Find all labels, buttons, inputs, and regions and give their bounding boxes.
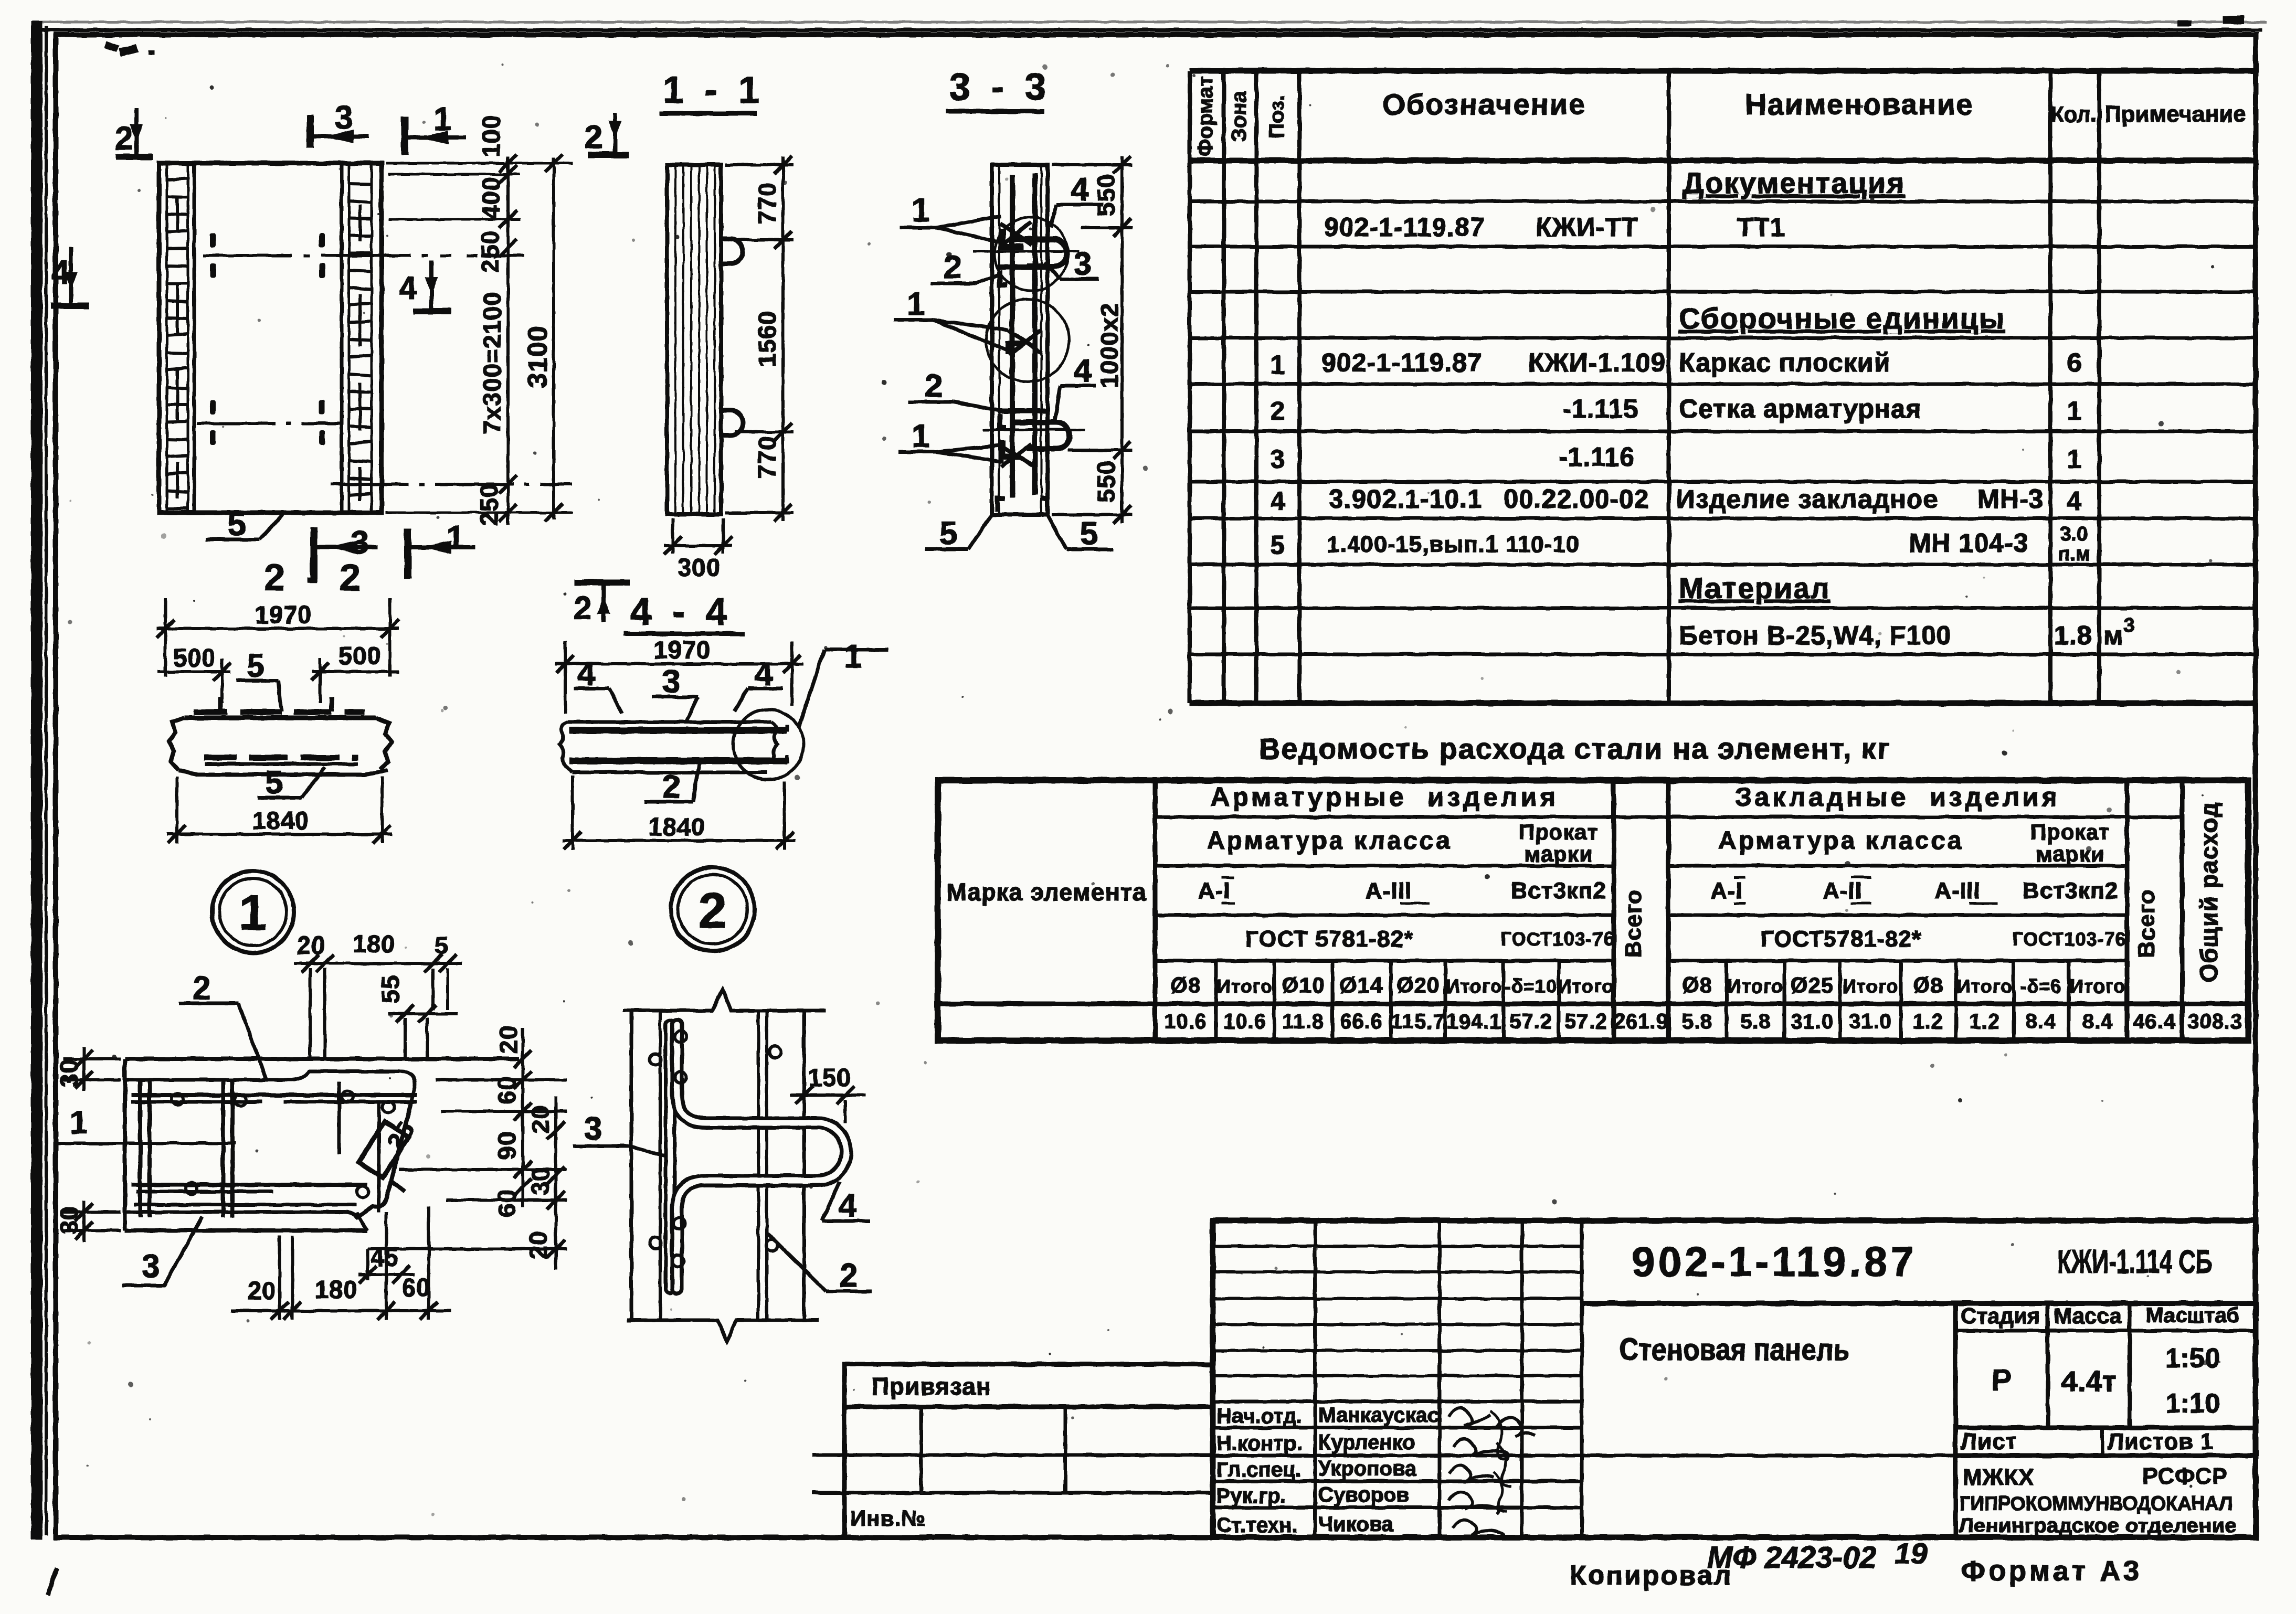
svg-text:А-I: А-I xyxy=(1198,878,1231,904)
svg-text:Арматура класса: Арматура класса xyxy=(1718,827,1964,855)
svg-text:ГОСТ5781-82*: ГОСТ5781-82* xyxy=(1761,926,1922,952)
section 4-4 detail circle xyxy=(733,709,803,780)
svg-text:Зона: Зона xyxy=(1228,91,1251,142)
svg-text:10.6: 10.6 xyxy=(1223,1010,1266,1033)
svg-text:902-1-119.87: 902-1-119.87 xyxy=(1321,348,1483,377)
svg-text:Обозначение: Обозначение xyxy=(1382,88,1586,121)
svg-text:Ø25: Ø25 xyxy=(1791,973,1834,997)
section 4-4 panel body xyxy=(560,722,787,772)
svg-text:Курленко: Курленко xyxy=(1318,1431,1415,1454)
svg-text:902-1-119.87: 902-1-119.87 xyxy=(1324,213,1485,242)
section 1-1 marker 2 bottom xyxy=(575,582,630,622)
svg-text:4: 4 xyxy=(51,254,70,291)
svg-text:7х300=2100: 7х300=2100 xyxy=(478,291,506,434)
svg-text:ГОСТ 5781-82*: ГОСТ 5781-82* xyxy=(1245,926,1413,952)
svg-text:1: 1 xyxy=(2067,396,2082,426)
svg-text:Масса: Масса xyxy=(2054,1303,2122,1328)
svg-text:1:50: 1:50 xyxy=(2165,1343,2220,1374)
specification table header texts xyxy=(1194,76,2246,156)
title block grid xyxy=(1213,1220,2256,1537)
svg-text:5: 5 xyxy=(1271,530,1286,560)
detail circle marker 1 xyxy=(212,871,294,953)
steel table header texts xyxy=(946,782,2223,982)
svg-text:Привязан: Привязан xyxy=(872,1373,991,1400)
svg-text:2: 2 xyxy=(840,1258,858,1294)
svg-text:2 - 2: 2 - 2 xyxy=(264,557,366,599)
detail 1 right dim chain B xyxy=(367,1097,567,1270)
svg-text:66.6: 66.6 xyxy=(1340,1010,1383,1033)
svg-text:Формат: Формат xyxy=(1194,76,1217,156)
svg-text:2: 2 xyxy=(699,883,726,939)
svg-text:3: 3 xyxy=(1074,246,1092,282)
svg-text:902-1-119.87: 902-1-119.87 xyxy=(1632,1238,1917,1285)
svg-text:20: 20 xyxy=(297,931,325,959)
svg-text:Вст3кп2: Вст3кп2 xyxy=(1511,878,1606,904)
section 3-3 lower rebar detail xyxy=(983,411,1085,466)
detail 2 panel edges xyxy=(623,990,826,1341)
section 2-2 panel body xyxy=(169,697,392,774)
svg-text:90: 90 xyxy=(493,1131,521,1160)
plan view centerlines xyxy=(197,256,572,484)
svg-text:Ø8: Ø8 xyxy=(1913,973,1943,997)
svg-text:300: 300 xyxy=(678,554,720,581)
svg-text:5: 5 xyxy=(247,648,264,684)
section marker 3 top xyxy=(310,115,368,148)
svg-text:Ленинградское отделение: Ленинградское отделение xyxy=(1959,1515,2237,1536)
specification table grid xyxy=(1190,71,2256,703)
svg-text:Гл.спец.: Гл.спец. xyxy=(1216,1458,1302,1481)
svg-text:5: 5 xyxy=(228,506,246,543)
section 3-3 vertical rebars xyxy=(1012,173,1035,497)
svg-text:Материал: Материал xyxy=(1679,571,1830,604)
svg-text:ТТ1: ТТ1 xyxy=(1737,213,1785,242)
svg-text:Итого: Итого xyxy=(2070,975,2126,997)
svg-text:2: 2 xyxy=(925,368,943,404)
detail 1 label 2 xyxy=(179,1003,266,1079)
detail 2 label 3 xyxy=(573,1146,664,1156)
svg-text:Кол.: Кол. xyxy=(2050,102,2097,126)
svg-text:2: 2 xyxy=(193,970,210,1006)
detail 1 diagonal anchor plate xyxy=(358,1121,409,1191)
svg-text:Ø14: Ø14 xyxy=(1340,973,1383,997)
svg-text:20: 20 xyxy=(248,1277,276,1304)
svg-text:30: 30 xyxy=(55,1206,83,1234)
svg-text:1 - 1: 1 - 1 xyxy=(663,69,765,111)
svg-text:1.400-15,вып.1 110-10: 1.400-15,вып.1 110-10 xyxy=(1327,532,1580,557)
svg-text:1: 1 xyxy=(239,885,267,941)
svg-text:1560: 1560 xyxy=(753,310,781,367)
svg-text:770: 770 xyxy=(753,436,781,479)
svg-text:250: 250 xyxy=(476,230,504,273)
svg-text:250: 250 xyxy=(475,483,503,526)
svg-text:Манкаускас: Манкаускас xyxy=(1318,1404,1440,1427)
detail 1 rebar cage xyxy=(131,1080,417,1217)
svg-text:-1.116: -1.116 xyxy=(1559,442,1635,472)
section 1-1 dims 770/1560/770 xyxy=(725,156,793,522)
svg-text:Рук.гр.: Рук.гр. xyxy=(1216,1484,1286,1507)
svg-text:261.9: 261.9 xyxy=(1613,1010,1668,1033)
svg-text:3 - 3: 3 - 3 xyxy=(949,66,1051,108)
section 3-3 dims 550/1000x2/550 xyxy=(1052,156,1133,524)
svg-text:4: 4 xyxy=(839,1187,857,1224)
svg-text:6: 6 xyxy=(2067,348,2082,377)
section 4-4 dim 1840 xyxy=(563,776,796,850)
detail 2 cross-bar circles xyxy=(650,1031,781,1267)
plan bottom label 5 xyxy=(206,513,283,539)
svg-text:А-III: А-III xyxy=(1934,878,1981,904)
svg-text:5: 5 xyxy=(265,764,283,801)
svg-text:Инв.№: Инв.№ xyxy=(850,1506,926,1531)
svg-text:Марка элемента: Марка элемента xyxy=(946,878,1146,906)
svg-text:марки: марки xyxy=(2036,842,2104,866)
section 1-1 hooks xyxy=(721,239,743,436)
detail 1 label 1 leader xyxy=(56,1142,236,1145)
svg-text:Закладные изделия: Закладные изделия xyxy=(1735,782,2060,812)
svg-text:Ø8: Ø8 xyxy=(1170,973,1201,997)
svg-text:1: 1 xyxy=(907,286,925,322)
svg-text:Итого: Итого xyxy=(1728,975,1784,997)
svg-text:4: 4 xyxy=(1071,172,1089,208)
svg-text:п.м: п.м xyxy=(2058,543,2090,565)
svg-text:30: 30 xyxy=(55,1059,83,1087)
svg-text:20: 20 xyxy=(524,1231,552,1259)
svg-text:60: 60 xyxy=(493,1076,521,1105)
svg-text:5: 5 xyxy=(939,516,957,552)
svg-text:4: 4 xyxy=(1271,486,1286,516)
svg-text:4: 4 xyxy=(1074,353,1092,389)
plan view ladder rungs right xyxy=(349,184,372,495)
svg-text:Стадия: Стадия xyxy=(1961,1303,2040,1328)
svg-text:1840: 1840 xyxy=(649,813,706,841)
section 2-2 label 5 bottom xyxy=(257,767,325,798)
steel table phi row xyxy=(1170,973,2125,997)
svg-text:м: м xyxy=(2103,621,2123,650)
svg-text:Итого: Итого xyxy=(1217,975,1273,997)
svg-text:А-III: А-III xyxy=(1366,878,1412,904)
svg-text:Итого: Итого xyxy=(1957,975,2013,997)
svg-text:Поз.: Поз. xyxy=(1265,94,1288,139)
detail 1 rebar section circles xyxy=(172,1091,394,1197)
svg-text:Листов 1: Листов 1 xyxy=(2108,1429,2214,1454)
section marker 4 left xyxy=(50,247,89,306)
section 3-3 labels left xyxy=(894,216,1012,462)
svg-text:марки: марки xyxy=(1524,842,1593,866)
svg-text:1: 1 xyxy=(446,519,464,556)
svg-text:ГОСТ103-76: ГОСТ103-76 xyxy=(1500,928,1614,950)
svg-text:-δ=10: -δ=10 xyxy=(1505,975,1557,997)
steel table data row xyxy=(1164,1010,2242,1033)
svg-text:45: 45 xyxy=(371,1243,399,1271)
plan dim extension lines xyxy=(386,163,573,513)
svg-text:Ст.техн.: Ст.техн. xyxy=(1216,1514,1298,1537)
svg-text:Сборочные единицы: Сборочные единицы xyxy=(1679,302,2005,335)
svg-text:60: 60 xyxy=(493,1189,521,1217)
section 3-3 middle rebar detail xyxy=(986,299,1069,382)
svg-text:1000х2: 1000х2 xyxy=(1095,303,1123,388)
svg-text:1: 1 xyxy=(1271,350,1286,379)
svg-text:Арматурные изделия: Арматурные изделия xyxy=(1211,782,1559,812)
section 2-2 dim 1970 xyxy=(156,598,399,677)
section 4-4 labels 4 3 4 1 xyxy=(574,650,888,727)
svg-text:3: 3 xyxy=(584,1111,602,1147)
svg-text:4: 4 xyxy=(755,656,773,692)
svg-text:Стеновая панель: Стеновая панель xyxy=(1619,1333,1850,1367)
svg-text:500: 500 xyxy=(173,644,216,672)
detail 2 U-bar 4 xyxy=(677,1025,847,1289)
svg-text:Итого: Итого xyxy=(1843,975,1899,997)
svg-text:4: 4 xyxy=(2067,486,2082,516)
svg-text:500: 500 xyxy=(338,642,381,670)
detail 2 mesh bar 3 xyxy=(664,1025,676,1289)
svg-text:Суворов: Суворов xyxy=(1318,1483,1409,1506)
svg-text:Масштаб: Масштаб xyxy=(2146,1304,2239,1327)
section marker 4 right xyxy=(414,261,451,311)
section 1-1 bar xyxy=(667,165,721,514)
svg-text:194.1: 194.1 xyxy=(1446,1010,1501,1033)
svg-text:30: 30 xyxy=(526,1167,554,1195)
section 2-2 dim 1840 xyxy=(167,777,393,844)
svg-text:Чикова: Чикова xyxy=(1318,1513,1394,1536)
svg-text:1970: 1970 xyxy=(255,601,312,629)
svg-text:Примечание: Примечание xyxy=(2104,101,2246,127)
svg-text:Бетон В-25,W4, F100: Бетон В-25,W4, F100 xyxy=(1679,621,1952,650)
svg-text:1.8: 1.8 xyxy=(2054,621,2092,650)
svg-text:1: 1 xyxy=(70,1105,88,1141)
svg-text:4.4т: 4.4т xyxy=(2061,1365,2116,1398)
svg-text:Ø10: Ø10 xyxy=(1282,973,1325,997)
steel table grid xyxy=(938,780,2248,1040)
svg-text:8.4: 8.4 xyxy=(2026,1010,2057,1033)
svg-text:Сетка арматурная: Сетка арматурная xyxy=(1679,394,1922,423)
svg-text:Вст3кп2: Вст3кп2 xyxy=(2023,878,2118,904)
svg-text:180: 180 xyxy=(315,1276,357,1303)
svg-text:8.4: 8.4 xyxy=(2082,1010,2113,1033)
section marker 2 top-left xyxy=(116,108,153,157)
svg-text:Лист: Лист xyxy=(1961,1429,2017,1454)
svg-text:Н.контр.: Н.контр. xyxy=(1216,1432,1302,1455)
svg-text:Общий расход: Общий расход xyxy=(2195,802,2223,982)
detail 1 bottom dims 20/180/60 xyxy=(231,1207,451,1320)
svg-text:5.8: 5.8 xyxy=(1682,1010,1713,1033)
svg-text:3: 3 xyxy=(351,525,368,561)
svg-text:МН 104-3: МН 104-3 xyxy=(1909,528,2029,558)
section marker 3 bottom xyxy=(314,527,378,579)
section 3-3 top rebar detail xyxy=(973,217,1080,291)
svg-text:-1.115: -1.115 xyxy=(1562,394,1638,423)
detail circle marker 2 xyxy=(671,867,755,951)
svg-text:Ø8: Ø8 xyxy=(1682,973,1712,997)
plan overall dim 3100 xyxy=(545,154,563,522)
svg-text:2: 2 xyxy=(1271,396,1286,426)
svg-text:-δ=6: -δ=6 xyxy=(2020,975,2062,997)
signatures squiggles xyxy=(1448,1408,1535,1538)
svg-text:А-II: А-II xyxy=(1823,878,1863,904)
plan view vertical stubs in rungs xyxy=(177,197,360,501)
section 4-4 label 2 xyxy=(644,764,699,802)
svg-text:19: 19 xyxy=(1895,1537,1927,1570)
svg-text:5: 5 xyxy=(1080,516,1098,552)
svg-text:3.0: 3.0 xyxy=(2060,523,2088,545)
svg-text:Нач.отд.: Нач.отд. xyxy=(1216,1405,1302,1428)
plan dim texts xyxy=(475,115,506,526)
svg-text:770: 770 xyxy=(753,182,781,225)
section 2-2 dims 500 xyxy=(157,659,399,703)
section 2-2 label 5 top xyxy=(236,681,281,712)
svg-text:10.6: 10.6 xyxy=(1164,1010,1207,1033)
svg-text:1: 1 xyxy=(2067,444,2082,474)
svg-text:20: 20 xyxy=(494,1025,522,1054)
svg-text:5: 5 xyxy=(435,931,449,959)
svg-text:55: 55 xyxy=(376,975,404,1003)
specification table rows xyxy=(1271,166,2135,650)
svg-text:А-I: А-I xyxy=(1710,878,1743,904)
svg-text:3: 3 xyxy=(2123,614,2134,636)
svg-text:2: 2 xyxy=(662,769,680,805)
detail 2 label 4 xyxy=(822,1182,870,1221)
svg-text:2: 2 xyxy=(115,121,133,157)
section marker 1 bottom xyxy=(408,529,475,579)
svg-text:Итого: Итого xyxy=(1446,975,1503,997)
svg-text:Прокат: Прокат xyxy=(1519,820,1599,844)
detail 2 dim 150 xyxy=(790,1086,866,1123)
section 3-3 labels 5 xyxy=(925,515,1113,549)
svg-text:Формат А3: Формат А3 xyxy=(1961,1555,2142,1587)
svg-text:100: 100 xyxy=(477,115,505,157)
svg-text:00.22.00-02: 00.22.00-02 xyxy=(1504,484,1649,514)
svg-text:Наименование: Наименование xyxy=(1745,88,1974,121)
svg-text:2: 2 xyxy=(585,119,602,155)
detail 2 label 2 xyxy=(767,1233,872,1291)
svg-text:КЖИ-1.114 СБ: КЖИ-1.114 СБ xyxy=(2057,1244,2212,1280)
roman numeral bars xyxy=(1222,877,1997,904)
svg-text:3: 3 xyxy=(142,1248,160,1284)
svg-text:115.7: 115.7 xyxy=(1391,1010,1445,1033)
detail 1 dims 30 left xyxy=(63,1047,121,1243)
svg-text:1.2: 1.2 xyxy=(1970,1010,2001,1033)
privjazan box xyxy=(812,1364,1213,1537)
svg-text:31.0: 31.0 xyxy=(1849,1010,1892,1033)
svg-text:Р: Р xyxy=(1992,1363,2012,1397)
svg-text:Ведомость расхода стали на эле: Ведомость расхода стали на элемент, кг xyxy=(1259,732,1890,765)
svg-text:2: 2 xyxy=(574,590,591,627)
svg-text:550: 550 xyxy=(1092,460,1120,503)
svg-text:ГОСТ103-76: ГОСТ103-76 xyxy=(2012,928,2126,950)
svg-text:КЖИ-ТТ: КЖИ-ТТ xyxy=(1536,213,1638,242)
plan dim chain 100/400/250/2100/250 xyxy=(499,154,517,525)
svg-text:1970: 1970 xyxy=(654,636,711,664)
svg-text:5.8: 5.8 xyxy=(1740,1010,1771,1033)
detail 1 label 3 xyxy=(122,1217,202,1286)
svg-text:ГИПРОКОММУНВОДОКАНАЛ: ГИПРОКОММУНВОДОКАНАЛ xyxy=(1960,1493,2232,1515)
svg-text:МФ 2423-02: МФ 2423-02 xyxy=(1707,1541,1877,1575)
svg-text:180: 180 xyxy=(353,930,395,958)
svg-text:Прокат: Прокат xyxy=(2030,820,2110,844)
svg-text:Изделие закладное: Изделие закладное xyxy=(1676,484,1938,514)
section 3-3 panel outline xyxy=(992,165,1048,515)
svg-text:46.4: 46.4 xyxy=(2133,1010,2176,1033)
detail 1 dim 45 xyxy=(358,1249,415,1283)
svg-text:1: 1 xyxy=(912,192,929,228)
svg-text:4 - 4: 4 - 4 xyxy=(630,591,732,633)
svg-text:57.2: 57.2 xyxy=(1509,1010,1552,1033)
svg-text:Документация: Документация xyxy=(1683,166,1905,199)
detail 1 concrete outline xyxy=(125,1059,520,1230)
svg-text:3: 3 xyxy=(662,664,680,700)
bottom annotations xyxy=(1570,1537,2142,1591)
svg-text:Арматура класса: Арматура класса xyxy=(1207,827,1452,855)
svg-text:3.902.1-10.1: 3.902.1-10.1 xyxy=(1329,484,1483,514)
svg-text:РСФСР: РСФСР xyxy=(2142,1463,2228,1489)
svg-text:МН-3: МН-3 xyxy=(1977,484,2044,514)
svg-text:МЖКХ: МЖКХ xyxy=(1963,1464,2035,1490)
plan view ladder rungs left xyxy=(167,178,188,508)
plan view panel outline xyxy=(159,163,382,513)
svg-text:Всего: Всего xyxy=(1621,889,1646,958)
svg-text:Итого: Итого xyxy=(1558,975,1614,997)
section 1-1 dim 300 xyxy=(664,518,732,555)
svg-text:3: 3 xyxy=(335,100,353,136)
svg-text:308.3: 308.3 xyxy=(2187,1010,2242,1033)
svg-text:1:10: 1:10 xyxy=(2165,1388,2220,1419)
svg-text:1840: 1840 xyxy=(252,806,310,834)
svg-text:1: 1 xyxy=(912,418,929,454)
plan view rebar dashes xyxy=(210,233,325,445)
section 1-1 marker 2 top xyxy=(588,113,629,155)
svg-text:4: 4 xyxy=(399,270,417,306)
svg-text:1.2: 1.2 xyxy=(1913,1010,1944,1033)
detail 1 dim 55 xyxy=(388,1005,458,1058)
svg-text:150: 150 xyxy=(808,1064,851,1091)
svg-text:550: 550 xyxy=(1092,174,1120,216)
signature rows texts xyxy=(1216,1404,1440,1537)
svg-text:1: 1 xyxy=(844,639,862,675)
svg-text:11.8: 11.8 xyxy=(1282,1010,1324,1033)
title block texts xyxy=(1619,1238,2239,1536)
svg-text:3100: 3100 xyxy=(523,325,553,388)
detail 1 top dims 20/180/5 xyxy=(294,954,462,1058)
svg-text:1: 1 xyxy=(433,101,451,137)
detail 1 right dim chain A xyxy=(399,1028,567,1207)
section marker 1 top xyxy=(405,116,466,155)
section 4-4 dim 1970 xyxy=(555,641,803,714)
svg-text:20: 20 xyxy=(526,1105,554,1133)
svg-text:57.2: 57.2 xyxy=(1564,1010,1607,1033)
svg-text:Ø20: Ø20 xyxy=(1396,973,1440,997)
svg-text:Укропова: Укропова xyxy=(1318,1457,1417,1480)
svg-text:400: 400 xyxy=(477,177,505,219)
svg-text:3: 3 xyxy=(1271,444,1286,474)
section 3-3 labels right xyxy=(1044,205,1103,420)
svg-text:31.0: 31.0 xyxy=(1791,1010,1834,1033)
svg-text:4: 4 xyxy=(577,656,596,692)
svg-text:КЖИ-1.109: КЖИ-1.109 xyxy=(1528,348,1666,377)
svg-text:Каркас плоский: Каркас плоский xyxy=(1679,348,1891,377)
section 3-3 bottom corner stubs xyxy=(998,498,1048,512)
svg-text:60: 60 xyxy=(402,1273,430,1301)
svg-text:Всего: Всего xyxy=(2134,889,2160,958)
